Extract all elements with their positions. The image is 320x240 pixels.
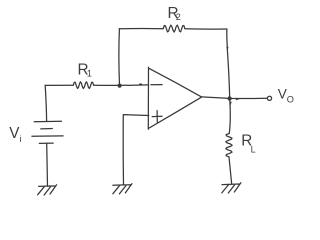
op-amp plus sign: [152, 111, 162, 123]
battery Vi: [45, 85, 46, 121]
wire right vertical upper (feedback down to output node): [227, 29, 230, 98]
arrowhead down below output node: [229, 102, 231, 106]
wire RL to ground: [229, 157, 232, 184]
svg-text:2: 2: [176, 12, 181, 22]
arrowhead right on output wire: [236, 98, 240, 100]
wire input from source corner to op-amp: [45, 84, 73, 86]
label Vi: [9, 125, 21, 144]
wire output from op-amp to terminal: [202, 97, 268, 99]
svg-text:1: 1: [87, 68, 92, 78]
ground (RL): [222, 183, 241, 193]
resistor R1: [73, 82, 93, 89]
label Vo: [278, 86, 294, 104]
resistor R2: [163, 25, 185, 32]
wire non-inverting input: [123, 115, 149, 185]
wire output node down to RL: [229, 99, 230, 134]
svg-text:L: L: [251, 144, 256, 154]
wire top feedback right segment: [185, 28, 227, 30]
node junction at R1/feedback: [118, 84, 122, 88]
svg-text:V: V: [9, 125, 20, 142]
wire feedback left vertical: [118, 29, 121, 86]
svg-text:O: O: [287, 94, 294, 104]
label R1: [78, 62, 92, 79]
arrowhead down on right vertical: [226, 47, 228, 51]
svg-text:V: V: [278, 86, 287, 101]
ground (battery): [38, 185, 57, 195]
wire blob artifact: [139, 83, 142, 85]
ground (non-inverting input): [113, 184, 132, 194]
wire top feedback left segment: [119, 27, 163, 29]
node junction at output: [227, 96, 231, 100]
op-amp U1: [148, 67, 201, 129]
resistor RL: [226, 134, 232, 157]
op-amp minus sign: [151, 84, 162, 86]
label RL: [241, 132, 255, 154]
terminal Vo: [267, 96, 271, 100]
svg-text:i: i: [20, 134, 22, 144]
label R2: [168, 5, 181, 22]
wire R1 to op-amp inverting input: [94, 84, 149, 86]
